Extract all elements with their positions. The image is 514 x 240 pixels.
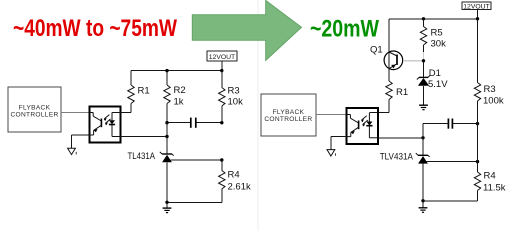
svg-text:CONTROLLER: CONTROLLER xyxy=(10,112,58,119)
node dot cap-right xyxy=(220,121,223,124)
resistor R3 left xyxy=(219,71,243,123)
wire opto emitter to ground right xyxy=(331,137,347,150)
svg-text:1k: 1k xyxy=(174,97,184,108)
optocoupler U2 box xyxy=(90,107,121,143)
svg-text:100k: 100k xyxy=(483,96,504,107)
signal ground triangle right xyxy=(327,150,336,156)
node dot ground-junction right xyxy=(421,199,424,202)
svg-text:R4: R4 xyxy=(484,171,496,182)
resistor R3 right xyxy=(474,19,504,124)
opto LED right xyxy=(366,113,378,138)
svg-text:R3: R3 xyxy=(228,86,240,97)
node dot opto-cathode right xyxy=(421,136,424,139)
svg-text:2.61k: 2.61k xyxy=(228,182,251,193)
compensation capacitor C1 left xyxy=(167,118,222,128)
bottom return wire left xyxy=(167,201,222,203)
top rail 12V left xyxy=(131,70,222,72)
node dot rail-R5 xyxy=(422,17,425,20)
svg-text:11.5k: 11.5k xyxy=(483,183,506,194)
12VOUT net label left xyxy=(207,51,237,71)
svg-text:Q1: Q1 xyxy=(370,45,383,56)
resistor R2 left xyxy=(164,71,186,123)
svg-text:FLYBACK: FLYBACK xyxy=(273,109,305,116)
node dot ground-junction left xyxy=(165,201,168,204)
TLV431 ref wire to divider xyxy=(427,161,478,163)
node dot rail-R3 right xyxy=(476,17,479,20)
zener diode D1 5.1V xyxy=(417,61,448,105)
resistor R4 right xyxy=(474,162,505,201)
svg-text:FLYBACK: FLYBACK xyxy=(19,104,51,111)
opto light arrows right xyxy=(361,116,368,127)
resistor R1 right xyxy=(369,74,408,113)
gray base wire Q1 to zener node xyxy=(403,52,424,61)
earth ground left xyxy=(163,202,172,212)
compensation capacitor C1 right xyxy=(423,119,478,129)
wire flyback to opto right xyxy=(316,114,347,116)
flyback controller U-right box xyxy=(261,94,316,136)
optocoupler U2 right box xyxy=(347,108,378,144)
svg-text:30k: 30k xyxy=(431,39,447,50)
node dot rail-R3 xyxy=(220,69,223,72)
node dot opto-cathode xyxy=(165,135,168,138)
resistor R4 left xyxy=(219,160,251,202)
node dot cap-left xyxy=(165,121,168,124)
wire rail to Q1 collector xyxy=(388,19,390,74)
node dot base-zener xyxy=(422,59,425,62)
wire R3 node to ref node right xyxy=(477,124,479,162)
opto phototransistor right xyxy=(347,115,359,137)
svg-text:12VOUT: 12VOUT xyxy=(463,3,489,10)
opto phototransistor xyxy=(90,113,102,136)
flyback controller U-left box xyxy=(8,87,61,132)
node dot rail-R2 xyxy=(165,69,168,72)
faint slide divider xyxy=(257,0,259,231)
svg-text:R3: R3 xyxy=(484,84,496,95)
resistor R5 xyxy=(420,19,446,52)
transistor Q1 xyxy=(370,45,403,70)
svg-text:CONTROLLER: CONTROLLER xyxy=(264,116,312,123)
TL431 ref wire to divider xyxy=(171,159,222,161)
node dot ref-divider right xyxy=(476,160,479,163)
node dot cap-right-column xyxy=(476,122,479,125)
signal ground triangle left xyxy=(68,148,77,154)
svg-text:R1: R1 xyxy=(138,86,150,97)
svg-text:~40mW to ~75mW: ~40mW to ~75mW xyxy=(13,15,177,42)
node dot ref-divider xyxy=(220,158,223,161)
svg-text:TLV431A: TLV431A xyxy=(380,152,414,163)
top rail 12V right xyxy=(389,18,478,20)
svg-text:TL431A: TL431A xyxy=(128,151,156,162)
svg-text:D1: D1 xyxy=(429,68,441,79)
wire R2 node down to TL431 xyxy=(166,123,168,154)
bottom return wire right xyxy=(423,200,478,202)
12VOUT net label right xyxy=(462,2,491,19)
shunt regulator TL431A xyxy=(128,151,174,202)
wire cap corner down to TLV431 xyxy=(422,124,424,156)
wire opto cathode to TLV431 node right xyxy=(378,137,423,139)
svg-text:5.1V: 5.1V xyxy=(428,79,448,90)
shunt regulator TLV431A xyxy=(380,152,430,201)
wire opto cathode to TL431 node xyxy=(121,136,167,138)
opto light arrows xyxy=(104,115,111,126)
wire flyback to opto (collector) xyxy=(61,112,90,114)
svg-text:R5: R5 xyxy=(431,28,443,39)
svg-text:R2: R2 xyxy=(174,85,186,96)
opto LED D-opto xyxy=(109,112,121,136)
green transition arrow xyxy=(192,0,301,60)
svg-text:~20mW: ~20mW xyxy=(310,16,379,43)
earth ground D1 xyxy=(419,105,428,110)
svg-text:12VOUT: 12VOUT xyxy=(209,54,235,61)
svg-text:10k: 10k xyxy=(228,97,244,108)
resistor R1 left xyxy=(112,71,150,113)
earth ground right xyxy=(419,201,428,213)
wire opto emitter to ground xyxy=(72,135,90,148)
svg-text:R1: R1 xyxy=(396,87,408,98)
svg-text:R4: R4 xyxy=(228,170,240,181)
